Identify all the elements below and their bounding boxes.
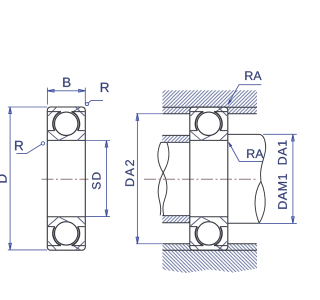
shaft shoulder band bottom edge (162, 222, 190, 224)
housing bottom block hatched (163, 244, 258, 273)
dimension SD arrow top (105, 141, 108, 148)
leader R bottom-left (17, 144, 42, 153)
dimension D extension line top (8, 106, 47, 108)
label RA middle (247, 149, 263, 158)
dimension B line (47, 90, 85, 92)
leader RA middle (229, 143, 263, 162)
dimension DA2 extension bottom (136, 243, 163, 245)
label D (0, 175, 7, 183)
label SD (92, 172, 101, 189)
housing bore line top (163, 106, 258, 108)
dimension D line (9, 107, 11, 250)
shaft break line left inner (158, 142, 169, 215)
leader circle R top-right (86, 103, 89, 106)
leader circle R bottom-left (41, 142, 44, 145)
dimension DA1 DAM1 line (292, 134, 294, 223)
dimension DA1 arrow bottom (292, 217, 295, 224)
bearing right figure (190, 107, 228, 250)
housing top block edges (163, 113, 257, 115)
leader RA top arrowhead (226, 99, 231, 106)
collar break curve upper (261, 149, 266, 182)
dimension SD extension bottom (86, 216, 111, 218)
dimension D arrow top (9, 107, 12, 114)
shaft top surface (161, 141, 190, 143)
label B (63, 78, 70, 87)
housing top block hatched (163, 90, 258, 114)
shaft shoulder band top edge (162, 134, 190, 136)
dimension SD line (106, 141, 108, 217)
label R top-right (101, 83, 109, 92)
dimension DA2 arrow top (136, 114, 139, 121)
dimension DA1 extension bottom (259, 222, 297, 224)
leader RA middle arrowhead (227, 141, 232, 148)
shaft break line left outer (158, 142, 167, 215)
dimension DA2 extension top (136, 113, 163, 115)
bearing left figure (47, 107, 85, 250)
shaft shoulder band bottom hatched (162, 216, 190, 223)
housing bore line bottom (163, 249, 258, 251)
label RA top (245, 71, 261, 80)
collar break lens right (259, 181, 265, 223)
dimension DA1 arrow top (292, 134, 295, 141)
dimension SD arrow bottom (105, 210, 108, 217)
dimension DA2 line (136, 114, 138, 244)
dimension B extension lines (47, 88, 85, 105)
shaft bottom surface (162, 215, 190, 217)
dimension DA2 arrow bottom (136, 237, 139, 244)
housing bottom block edges (163, 243, 257, 245)
label DAM1 (278, 174, 287, 209)
leader R top-right (88, 101, 103, 104)
dimension D arrow bottom (9, 243, 12, 250)
dimension B arrow right (79, 89, 86, 92)
dimension B arrow left (47, 89, 54, 92)
collar break lens left (255, 181, 261, 223)
centerline right figure (144, 178, 258, 180)
collar top edge (228, 134, 266, 148)
shaft shoulder band top hatched (162, 135, 190, 142)
dimension DA1 extension top (263, 133, 297, 135)
dimension D extension line bottom (8, 249, 47, 251)
dimension SD extension top (86, 140, 111, 142)
label DA1 (278, 141, 287, 165)
centerline left figure (42, 178, 89, 180)
label DA2 (125, 160, 134, 186)
label R bottom-left (15, 141, 23, 150)
leader RA top (229, 85, 262, 104)
collar bottom edge (228, 222, 259, 224)
